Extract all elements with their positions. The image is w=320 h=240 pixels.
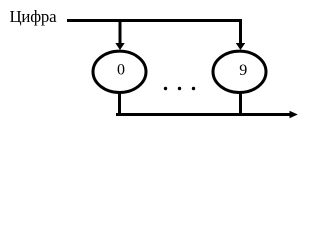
svg-text:9: 9 <box>239 62 247 79</box>
svg-text:Цифра: Цифра <box>10 7 58 26</box>
svg-text:0: 0 <box>117 62 125 79</box>
